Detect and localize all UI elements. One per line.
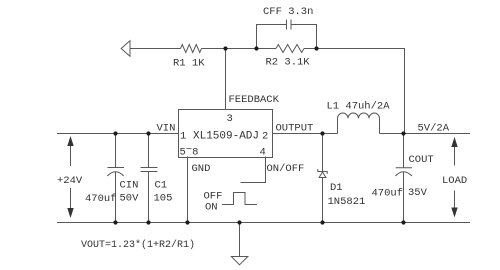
capacitor C1	[148, 134, 150, 168]
svg-text:GND: GND	[192, 163, 211, 175]
wire bottom ground rail	[57, 222, 470, 224]
node junction R1/feedback	[223, 46, 227, 50]
svg-text:+24V: +24V	[57, 175, 83, 187]
capacitor CFF	[286, 20, 288, 30]
svg-text:L1 47uh/2A: L1 47uh/2A	[327, 101, 391, 113]
svg-text:XL1509-ADJ: XL1509-ADJ	[193, 131, 259, 143]
svg-text:1N5821: 1N5821	[328, 196, 366, 208]
node junction OUTPUT/D1	[320, 131, 324, 135]
wire FEEDBACK pin 3 vertical	[225, 49, 227, 110]
wire +24V arrow shaft top	[70, 146, 72, 167]
svg-text:D1: D1	[330, 182, 343, 194]
svg-text:35V: 35V	[408, 187, 428, 199]
resistor R1	[181, 45, 202, 53]
wire CFF right branch	[291, 25, 317, 49]
svg-text:R1 1K: R1 1K	[173, 58, 205, 70]
node junction VIN/CIN	[113, 131, 117, 135]
node junction ground symbol	[237, 220, 241, 224]
wire OUTPUT pin 2	[273, 133, 338, 135]
svg-text:50V: 50V	[120, 193, 140, 205]
node junction CIN ground	[113, 220, 117, 224]
node junction R2 right	[314, 46, 318, 50]
svg-text:3: 3	[227, 113, 233, 125]
wire LOAD arrow shaft top	[454, 147, 456, 166]
svg-text:R2 3.1K: R2 3.1K	[266, 57, 311, 69]
wire ground symbol stem	[239, 223, 241, 257]
wire top rail middle segment	[202, 48, 277, 50]
svg-text:OUTPUT: OUTPUT	[276, 123, 314, 135]
LOAD arrowhead down	[451, 208, 457, 218]
wire feedback vertical drop to output node	[404, 49, 406, 134]
+24V arrowhead down	[67, 208, 73, 218]
capacitor COUT	[403, 134, 405, 168]
wire LOAD arrow shaft bottom	[454, 191, 456, 209]
svg-text:LOAD: LOAD	[442, 175, 467, 187]
node junction D1 ground	[320, 220, 324, 224]
svg-text:1: 1	[180, 131, 186, 143]
wire top rail right segment	[304, 48, 405, 50]
wire GND pin drop	[187, 157, 189, 223]
node junction GND pin ground	[185, 220, 189, 224]
wire +24V arrow shaft bottom	[70, 188, 72, 210]
node junction 5V/COUT	[401, 131, 405, 135]
svg-text:VIN: VIN	[157, 123, 176, 135]
waveform pulse symbol	[222, 193, 257, 205]
svg-text:CIN: CIN	[120, 180, 139, 192]
node junction COUT ground	[401, 220, 405, 224]
svg-text:ON: ON	[205, 202, 218, 214]
op-amp U1 XL1509-ADJ body	[179, 110, 273, 158]
resistor R2	[276, 45, 304, 53]
svg-text:FEEDBACK: FEEDBACK	[229, 94, 280, 106]
svg-text:C1: C1	[155, 180, 168, 192]
svg-text:105: 105	[154, 193, 173, 205]
svg-text:2: 2	[262, 131, 268, 143]
capacitor CIN	[115, 134, 117, 168]
diode D1 1N5821	[322, 134, 324, 172]
wire CFF left branch	[257, 25, 287, 49]
node junction R2 left	[254, 46, 258, 50]
svg-text:COUT: COUT	[409, 154, 434, 166]
node junction VIN/C1	[146, 131, 150, 135]
wire VIN rail	[57, 133, 179, 135]
+24V arrowhead up	[67, 136, 73, 146]
node feedback input arrow	[121, 41, 130, 57]
svg-text:CFF 3.3n: CFF 3.3n	[263, 6, 313, 18]
svg-text:5V/2A: 5V/2A	[418, 123, 450, 135]
wire 5V output rail	[380, 133, 471, 135]
svg-text:ON/OFF: ON/OFF	[267, 163, 305, 175]
inductor L1	[338, 113, 380, 133]
svg-text:470uf: 470uf	[372, 188, 404, 200]
wire top rail left segment	[130, 48, 181, 50]
LOAD arrowhead up	[451, 137, 457, 147]
ground	[231, 257, 248, 265]
svg-text:470uf: 470uf	[85, 193, 117, 205]
wire ON/OFF pin stub	[241, 157, 266, 183]
svg-text:4: 4	[260, 147, 266, 159]
node junction C1 ground	[146, 220, 150, 224]
svg-text:VOUT=1.23*(1+R2/R1): VOUT=1.23*(1+R2/R1)	[81, 239, 195, 251]
